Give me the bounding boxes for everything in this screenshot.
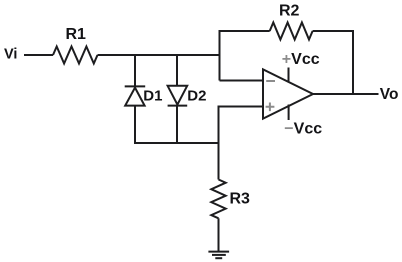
wire feedback vertical to output node [352, 30, 354, 94]
wire +Vcc stub [288, 68, 290, 82]
svg-text:−Vcc: −Vcc [284, 121, 322, 138]
wire noninverting input [219, 106, 265, 108]
wire D2 cathode to bottom rail [176, 106, 178, 144]
svg-text:D2: D2 [187, 88, 206, 105]
resistor R1 [53, 47, 98, 64]
wire D1 anode to bottom rail [134, 106, 136, 144]
wire feedback top right [313, 30, 354, 32]
diode D2 [168, 86, 188, 105]
diode D1 cathode bar [125, 85, 146, 87]
wire node A up branch to D1 [134, 55, 136, 86]
wire R3 to ground [218, 218, 220, 251]
diode D1 [125, 88, 144, 106]
wire feedback top left [219, 30, 270, 32]
wire R1 to node A [98, 54, 221, 56]
wire bottom rail [134, 142, 220, 144]
resistor R3 [211, 180, 225, 219]
svg-text:D1: D1 [143, 88, 162, 105]
op-amp U1 [263, 69, 313, 118]
svg-text:+Vcc: +Vcc [282, 51, 320, 68]
diode D2 cathode bar [168, 105, 188, 107]
resistor R2 [270, 23, 313, 40]
op-amp U1 noninverting mark [266, 103, 275, 112]
wire Vi lead [24, 54, 53, 56]
wire inverting input [220, 80, 265, 82]
svg-text:R2: R2 [279, 3, 300, 20]
wire junction vertical to inverting path [219, 30, 221, 81]
svg-text:R1: R1 [66, 26, 87, 43]
wire node A down branch to D2 [176, 55, 178, 86]
ground [208, 252, 229, 259]
svg-text:Vi: Vi [4, 47, 17, 63]
wire junction vertical to R3 [218, 106, 220, 180]
wire -Vcc stub [288, 105, 290, 121]
op-amp U1 inverting mark [266, 80, 275, 82]
svg-text:Vo: Vo [380, 86, 399, 103]
wire output to Vo [313, 93, 379, 95]
svg-text:R3: R3 [230, 191, 251, 208]
